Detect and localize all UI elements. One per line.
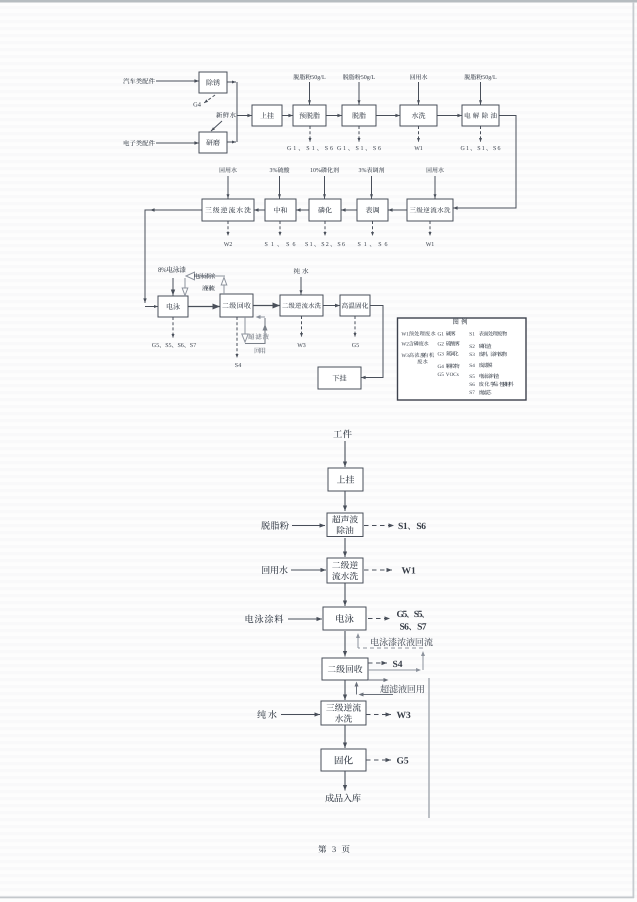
- svg-text:2: 2: [441, 341, 444, 347]
- svg-text:1: 1: [343, 146, 346, 152]
- svg-text:1: 1: [411, 567, 416, 577]
- svg-text:1: 1: [472, 331, 475, 337]
- svg-text:5: 5: [404, 757, 409, 767]
- svg-text:1: 1: [310, 242, 313, 248]
- svg-text:S: S: [477, 146, 480, 152]
- svg-text:G: G: [337, 146, 342, 152]
- svg-text:W: W: [397, 711, 407, 721]
- svg-text:2: 2: [326, 242, 329, 248]
- svg-text:6: 6: [421, 522, 426, 532]
- svg-text:5: 5: [403, 610, 408, 620]
- svg-text:S: S: [378, 242, 381, 248]
- svg-text:%: %: [362, 168, 367, 174]
- svg-text:S: S: [305, 242, 308, 248]
- svg-text:%: %: [316, 168, 321, 174]
- svg-text:S: S: [373, 146, 376, 152]
- svg-text:6: 6: [385, 242, 388, 248]
- svg-text:6: 6: [498, 146, 501, 152]
- svg-text:1: 1: [361, 146, 364, 152]
- svg-text:度: 度: [420, 352, 425, 359]
- svg-text:5: 5: [472, 374, 475, 380]
- svg-text:1: 1: [403, 522, 408, 532]
- svg-text:5: 5: [356, 343, 359, 349]
- svg-text:s: s: [457, 372, 459, 378]
- svg-text:1: 1: [466, 146, 469, 152]
- svg-text:1: 1: [431, 242, 434, 248]
- svg-text:4: 4: [238, 363, 241, 369]
- svg-text:1: 1: [312, 146, 315, 152]
- svg-text:1: 1: [406, 331, 409, 337]
- svg-text:1: 1: [420, 146, 423, 152]
- svg-text:S: S: [493, 146, 496, 152]
- svg-text:2: 2: [472, 344, 475, 350]
- svg-text:L: L: [372, 75, 376, 81]
- svg-text:3: 3: [441, 351, 444, 357]
- svg-text:%: %: [161, 267, 167, 274]
- svg-text:4: 4: [441, 364, 444, 370]
- svg-text:S: S: [286, 242, 289, 248]
- svg-text:6: 6: [472, 382, 475, 388]
- svg-text:4: 4: [472, 363, 475, 369]
- svg-text:%: %: [273, 168, 278, 174]
- svg-text:3: 3: [472, 352, 475, 358]
- svg-text:6: 6: [293, 242, 296, 248]
- svg-text:S: S: [337, 242, 340, 248]
- svg-text:6: 6: [181, 343, 184, 349]
- svg-text:S: S: [358, 242, 361, 248]
- svg-text:S: S: [321, 242, 324, 248]
- svg-text:W: W: [402, 567, 412, 577]
- svg-text:4: 4: [398, 660, 403, 670]
- svg-text:1: 1: [482, 146, 485, 152]
- svg-text:G: G: [461, 146, 466, 152]
- svg-text:S: S: [356, 146, 359, 152]
- svg-text:3: 3: [406, 711, 411, 721]
- svg-text:5: 5: [418, 610, 423, 620]
- svg-text:5: 5: [441, 372, 444, 378]
- svg-text:1: 1: [271, 242, 274, 248]
- svg-text:5: 5: [169, 343, 172, 349]
- svg-text:3: 3: [332, 844, 336, 854]
- svg-text:1: 1: [441, 331, 444, 337]
- svg-text:5: 5: [156, 343, 159, 349]
- svg-text:S: S: [306, 146, 309, 152]
- svg-text:2: 2: [406, 341, 409, 347]
- svg-text:S: S: [325, 146, 328, 152]
- svg-text:1: 1: [364, 242, 367, 248]
- svg-text:3: 3: [303, 343, 306, 349]
- svg-text:G: G: [287, 146, 292, 152]
- svg-text:6: 6: [404, 623, 409, 633]
- svg-text:7: 7: [193, 343, 196, 349]
- svg-text:6: 6: [342, 242, 345, 248]
- svg-text:6: 6: [330, 146, 333, 152]
- svg-text:7: 7: [422, 623, 427, 633]
- svg-text:S: S: [265, 242, 268, 248]
- svg-text:2: 2: [229, 242, 232, 248]
- svg-text:L: L: [322, 75, 326, 81]
- svg-text:3: 3: [406, 353, 409, 359]
- svg-text:6: 6: [378, 146, 381, 152]
- svg-text:L: L: [493, 75, 497, 81]
- svg-text:1: 1: [293, 146, 296, 152]
- svg-text:7: 7: [472, 390, 475, 396]
